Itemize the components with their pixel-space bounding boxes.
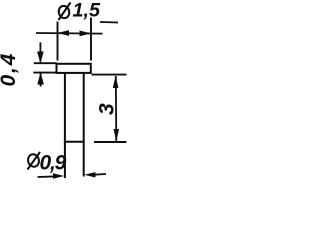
right extension line of Ø1,5	[90, 18, 92, 61]
down arrowhead of 3	[114, 129, 120, 142]
down arrowhead of 0,4	[37, 52, 44, 64]
lower dimension line of 0,4	[40, 74, 42, 87]
svg-text:0,9: 0,9	[40, 152, 67, 175]
dimension line for Ø1,5	[36, 32, 103, 35]
short dash right of label	[100, 21, 118, 24]
shank bottom edge	[64, 141, 85, 143]
svg-text:3: 3	[96, 103, 119, 115]
top extension line of 0,4	[34, 62, 57, 64]
left arrowhead of Ø1,5	[57, 30, 69, 36]
svg-text:0,4: 0,4	[0, 52, 20, 87]
pin head outline	[57, 64, 91, 73]
bottom extension line of 3	[94, 141, 127, 143]
upper dimension line of 0,4	[39, 42, 41, 62]
up arrowhead of 3	[113, 75, 119, 88]
left dimension line of Ø0,9	[38, 175, 59, 178]
bottom extension line of 0,4	[33, 72, 57, 74]
right arrowhead pointing right of Ø0,9	[53, 173, 64, 178]
shank left side with extension for Ø0,9	[64, 73, 66, 178]
shank right side with extension for Ø0,9	[83, 73, 85, 177]
right arrowhead of Ø1,5	[80, 31, 92, 37]
left extension line of Ø1,5	[57, 22, 59, 61]
up arrowhead of 0,4	[37, 72, 44, 84]
diameter symbol of label Ø1,5	[57, 3, 70, 21]
dimension line of 3	[115, 76, 118, 141]
svg-text:1,5: 1,5	[73, 0, 102, 22]
left arrowhead pointing left of Ø0,9	[84, 172, 95, 177]
diameter symbol of label Ø0,9	[27, 152, 41, 170]
right dimension line of Ø0,9	[92, 173, 106, 176]
top extension line of 3	[92, 74, 127, 76]
